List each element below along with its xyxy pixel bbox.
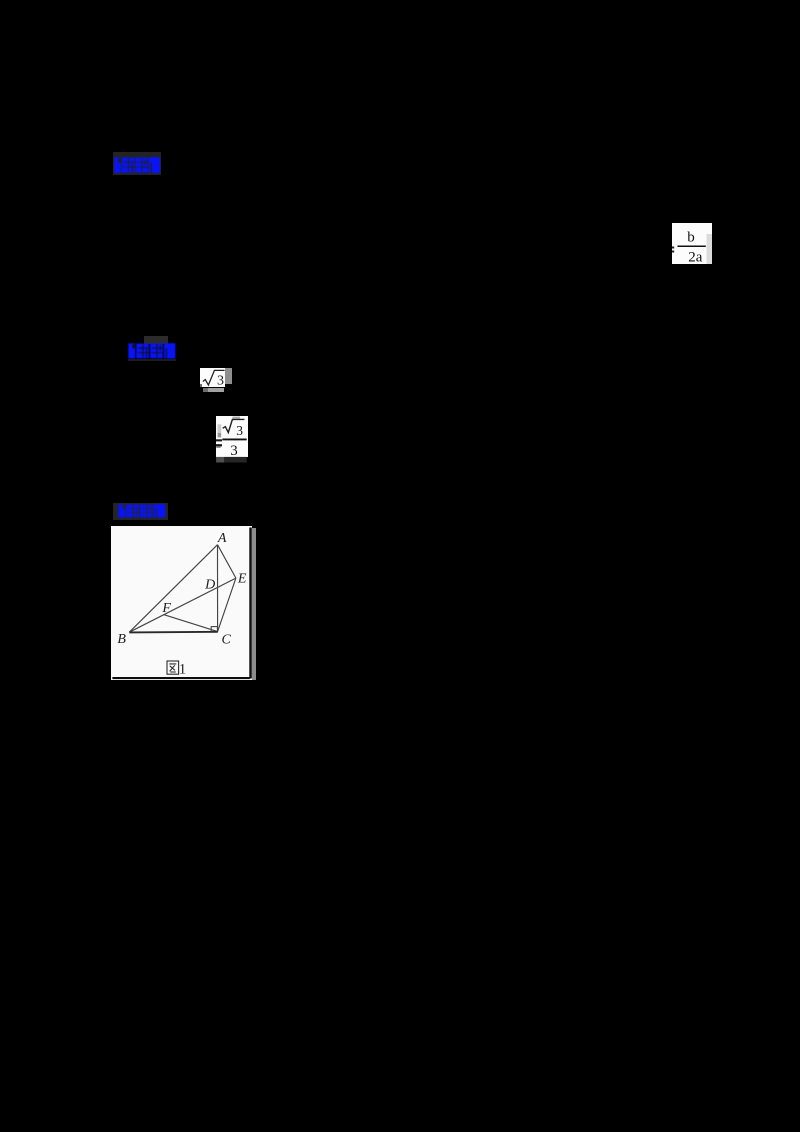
wire line FC	[164, 615, 218, 632]
frame border right	[250, 528, 253, 679]
wire line BE	[130, 578, 237, 632]
svg-text:E: E	[237, 572, 247, 587]
wire line AE	[218, 545, 236, 578]
formula box: -b/2a	[672, 223, 712, 264]
right angle mark at C	[212, 627, 218, 632]
svg-text:B: B	[118, 632, 127, 647]
svg-text:2a: 2a	[688, 249, 703, 264]
label 1 blue text blob	[114, 157, 160, 173]
gray drop shadow right of figure	[252, 528, 255, 680]
svg-text:b: b	[687, 230, 695, 246]
svg-text:3: 3	[217, 373, 224, 387]
caption glyph 图	[167, 661, 179, 674]
gray tab right of sqrt3	[225, 368, 232, 384]
figure drawing svg	[111, 526, 252, 680]
formula box: sqrt(3)	[200, 368, 225, 387]
label 1 dark backdrop	[113, 152, 162, 175]
geometry figure: white scan area	[111, 526, 252, 680]
gray strip below sqrt3	[203, 388, 224, 392]
wire line EC	[218, 578, 236, 632]
label 2 dark backdrop	[144, 336, 168, 344]
svg-text:D: D	[205, 578, 216, 593]
svg-text:F: F	[162, 601, 172, 616]
formula box: sqrt(3)/3	[216, 416, 248, 457]
wire line BC (thick base)	[130, 631, 218, 634]
svg-text:C: C	[222, 633, 232, 648]
label 3 blue text blob	[118, 504, 166, 518]
svg-text:1: 1	[179, 662, 186, 678]
label 2 blue text blob	[128, 343, 176, 359]
wire line AC	[217, 545, 219, 632]
wire line BA	[130, 545, 218, 633]
label 3 dark backdrop	[113, 503, 168, 520]
svg-text:A: A	[217, 531, 227, 546]
svg-text:3: 3	[236, 423, 243, 438]
frame border bottom	[113, 677, 251, 679]
svg-text:3: 3	[230, 443, 238, 459]
